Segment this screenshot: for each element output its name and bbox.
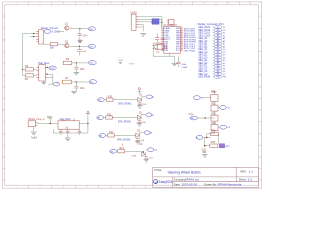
ground under U2 [42, 81, 47, 85]
svg-text:Hall_Sens: Hall_Sens [38, 62, 50, 65]
capacitor C15 [66, 129, 70, 135]
wire D3 to flag [138, 133, 144, 139]
ground row2 [137, 124, 142, 126]
svg-text:Amp_Mod: Amp_Mod [59, 118, 71, 121]
wire flag to ladder node [197, 117, 214, 119]
svg-text:SEG_E1: SEG_E1 [198, 60, 208, 62]
svg-text:19: 19 [181, 34, 183, 36]
svg-text:SEG_F2: SEG_F2 [198, 68, 208, 70]
svg-text:SEG_G2: SEG_G2 [198, 74, 208, 76]
svg-text:13: 13 [181, 47, 183, 49]
wire R24 to Q12 [218, 134, 220, 144]
svg-text:100n: 100n [80, 69, 86, 71]
wire power input left [23, 34, 37, 70]
svg-text:SEG_B1: SEG_B1 [198, 44, 208, 46]
junction D4 [143, 151, 144, 152]
svg-text:22: 22 [181, 27, 183, 29]
svg-text:R20: R20 [211, 92, 216, 94]
wire flag to R24 [203, 136, 211, 138]
svg-text:D: D [259, 86, 261, 89]
svg-text:B2: B2 [217, 46, 219, 48]
wire J3 to U3 [34, 124, 58, 132]
wire D4 riser [140, 150, 146, 153]
capacitor C6 [177, 56, 181, 67]
svg-text:D2: D2 [217, 30, 219, 32]
connector J2 [131, 14, 138, 30]
svg-text:2023-05-26: 2023-05-26 [182, 183, 198, 187]
svg-text:1.1: 1.1 [249, 170, 254, 174]
junction at J1 input [33, 33, 34, 34]
junction Q1 output [79, 28, 80, 29]
diode D2 [137, 115, 141, 119]
wire MCU bottom to ground [170, 53, 175, 63]
svg-text:VBAT: VBAT [118, 59, 124, 62]
VCC power flag right [86, 111, 90, 117]
svg-text:OUT: OUT [50, 68, 55, 70]
wire row3 [106, 134, 136, 136]
svg-text:17: 17 [181, 38, 183, 40]
svg-text:R13: R13 [120, 148, 125, 150]
resistor R25 [210, 144, 218, 147]
net flag SW_A [88, 27, 95, 31]
junction ladder mid [204, 117, 206, 119]
transistor Q11 [211, 125, 218, 131]
no-connect ground mark [119, 62, 122, 63]
wire U3 out to VCC riser [53, 118, 88, 133]
filter FB1 (blue module) [151, 19, 161, 24]
button row 1: net flag BTN1 [98, 98, 105, 102]
net flag COL2 [146, 113, 155, 117]
svg-text:12: 12 [181, 49, 183, 51]
button row 3: resistor R12 [108, 134, 115, 137]
ground ladder [202, 155, 208, 158]
capacitor C14 [59, 129, 63, 135]
button row 4: net flag BTN4 [110, 149, 117, 153]
border zone number labels [3, 2, 262, 188]
svg-text:1/1: 1/1 [248, 178, 253, 182]
net flag ROW2 [89, 61, 97, 65]
MCU U1 pin numbers [162, 27, 183, 51]
svg-text:R12: R12 [109, 132, 114, 134]
svg-text:A2: A2 [217, 40, 219, 43]
capacitor C11 [137, 121, 141, 124]
svg-text:G: G [259, 156, 261, 159]
wire U2 right pins [48, 67, 53, 84]
svg-text:SEG_CLK1: SEG_CLK1 [198, 33, 211, 35]
capacitor C3 [74, 63, 78, 73]
svg-text:STBY: STBY [129, 63, 135, 65]
svg-text:100n: 100n [80, 88, 86, 90]
reset jumper JP1 [167, 19, 174, 26]
MCU U1 internal right pin names [176, 27, 181, 52]
svg-text:20: 20 [181, 32, 183, 34]
transistor Q1 [65, 26, 69, 30]
capacitor C1 [78, 29, 82, 40]
svg-text:6: 6 [162, 38, 163, 40]
MCU right net labels [184, 27, 197, 52]
buzzer LS1 (purple) [219, 144, 224, 148]
ground row4 [144, 160, 149, 162]
svg-text:K1: K1 [217, 32, 219, 34]
net flag OUT_H [49, 66, 56, 70]
svg-text:Power_Current: Power_Current [41, 27, 58, 30]
net flag AUX [53, 82, 59, 86]
svg-text:SEG_B2: SEG_B2 [198, 46, 208, 48]
ground under U3 [65, 138, 71, 141]
MCU U1 left pins [161, 28, 163, 50]
svg-text:K2: K2 [217, 35, 219, 37]
svg-text:1: 1 [162, 27, 163, 29]
net flag ROW3 [89, 80, 97, 84]
wire J2 pin1 to MCU [139, 17, 162, 27]
diode D4 [142, 152, 146, 156]
diode D3 [136, 133, 140, 137]
ladder bottom pin mark [203, 151, 207, 153]
ground row1 [137, 106, 142, 108]
svg-text:H: H [259, 179, 261, 182]
wire Q1 collector to flag [69, 28, 88, 30]
svg-text:R10: R10 [108, 96, 113, 98]
wire ladder bottom left [205, 137, 210, 145]
junction ladder bottom [204, 145, 206, 147]
wire left rail to resistors [23, 69, 37, 75]
wire J2 pin2 to filter [139, 18, 152, 20]
svg-text:G: G [3, 156, 5, 159]
capacitor C10 [138, 103, 142, 106]
svg-text:D1: D1 [217, 54, 219, 56]
resistor R7 [62, 80, 71, 84]
junction U2 out1 [47, 67, 48, 68]
wire J2 pin3 to filter [139, 21, 152, 23]
button row 2: net flag BTN2 [97, 116, 104, 120]
resistor R3 [25, 68, 33, 71]
junction left rail [22, 69, 23, 70]
net flag IN_SIG [196, 136, 203, 140]
ground under C4 [71, 91, 77, 93]
connector J1 [36, 30, 43, 44]
opamp U3 [58, 119, 79, 130]
svg-text:SEG_A2: SEG_A2 [198, 40, 208, 43]
junction U2 out2 [47, 74, 48, 75]
resistor R24 [211, 132, 218, 135]
svg-text:PW: PW [223, 77, 226, 79]
wire Q11 down [207, 131, 215, 137]
svg-text:SP54A Ltd: SP54A Ltd [185, 177, 200, 181]
svg-text:REV:: REV: [241, 170, 247, 174]
svg-text:E1: E1 [217, 60, 219, 62]
junction U3 out [87, 123, 88, 124]
svg-text:E2: E2 [217, 63, 219, 65]
wire Q2 to flag [69, 45, 88, 47]
svg-text:5: 5 [162, 36, 163, 38]
button row 1: resistor R10 [106, 98, 113, 101]
EasyEDA logo icon [154, 180, 158, 184]
net flag OUT1 [218, 106, 231, 110]
resistor R1 [50, 43, 58, 46]
svg-text:SEG_C2: SEG_C2 [198, 52, 208, 54]
MCU U1 right pins [180, 28, 182, 50]
audio jack J3 [28, 121, 37, 127]
svg-text:H: H [3, 179, 5, 182]
capacitor C5 [155, 33, 159, 43]
wire caps to ground [67, 135, 69, 138]
small mark below labels [213, 91, 217, 92]
wire flag to Q10 [204, 97, 210, 99]
svg-text:SEG_A1: SEG_A1 [198, 37, 208, 40]
svg-text:16: 16 [181, 40, 183, 42]
ground under J2 [140, 34, 146, 37]
junction VCC [50, 123, 51, 124]
svg-text:BTN_ROW2: BTN_ROW2 [118, 122, 131, 124]
svg-text:4: 4 [162, 34, 163, 36]
wire R22 down [213, 121, 215, 124]
svg-text:Date:: Date: [174, 183, 181, 187]
wire R6 row [72, 62, 89, 64]
capacitor C4 [74, 82, 78, 91]
wire J2 pin4 down [139, 24, 144, 31]
svg-text:D1: D1 [217, 27, 219, 29]
svg-text:F2: F2 [217, 68, 219, 70]
capacitor C2 [77, 46, 81, 55]
button row 2: resistor R11 [106, 116, 113, 119]
MCU U1 internal pin names [164, 27, 170, 52]
svg-text:C2: C2 [217, 52, 219, 54]
svg-text:15: 15 [181, 43, 183, 45]
svg-text:SEG_DAT2: SEG_DAT2 [198, 29, 211, 32]
button row 4: resistor R13 [118, 150, 125, 153]
border zone tick marks bottom [28, 185, 145, 188]
wire R7 row [71, 81, 88, 83]
border zone tick marks left [2, 28, 4, 168]
svg-text:3: 3 [162, 32, 163, 34]
capacitor C13 [145, 157, 148, 158]
svg-text:Drawn By:: Drawn By: [204, 183, 217, 187]
svg-text:10: 10 [162, 47, 164, 49]
button row 3: net flag BTN3 [99, 134, 106, 138]
svg-text:C: C [3, 62, 5, 65]
svg-text:SEG_E2: SEG_E2 [198, 63, 208, 65]
svg-text:VCAP: VCAP [181, 66, 187, 69]
svg-text:C1: C1 [217, 49, 219, 51]
VCC power flag left [47, 116, 52, 124]
svg-text:LED_PWM: LED_PWM [198, 77, 209, 79]
svg-text:TITLE:: TITLE: [154, 168, 162, 172]
svg-text:SEG_G1: SEG_G1 [198, 71, 208, 73]
svg-text:G2: G2 [217, 74, 220, 76]
svg-text:G1: G1 [217, 71, 220, 73]
junction R24 input [206, 137, 208, 139]
wire D1 to flag [140, 97, 146, 103]
svg-text:2: 2 [162, 29, 163, 31]
transistor Q10 [211, 92, 218, 105]
capacitor C12 [136, 139, 140, 142]
resistor R22 [211, 115, 218, 121]
svg-text:LED_PWM: LED_PWM [184, 50, 195, 52]
svg-text:100n: 100n [181, 64, 187, 66]
svg-text:V_SNS: V_SNS [52, 31, 60, 34]
svg-text:14: 14 [181, 45, 183, 47]
svg-text:PW: PW [216, 76, 219, 78]
border zone tick marks right [259, 28, 262, 168]
svg-text:BTN_ROW1: BTN_ROW1 [118, 104, 131, 106]
junction lower [33, 36, 34, 37]
svg-text:X1 8MHz: X1 8MHz [154, 43, 163, 45]
wire row1 [104, 99, 138, 101]
wire D2 to flag [139, 115, 145, 121]
svg-text:Steering Wheel Button: Steering Wheel Button [168, 171, 201, 175]
crystal load capacitor CL2 [165, 46, 166, 49]
capacitor C16 [78, 129, 82, 135]
net flag LED_EN [193, 96, 204, 100]
junction row2 [76, 62, 77, 63]
sheet outer border frame [2, 2, 261, 188]
net flag SW_B [88, 44, 95, 48]
svg-text:4148: 4148 [131, 156, 137, 158]
svg-text:SEG_CLK2: SEG_CLK2 [198, 35, 211, 37]
svg-text:SEG_DAT1: SEG_DAT1 [198, 26, 211, 29]
ground under J3 [31, 132, 37, 138]
net flag COL1 [146, 95, 155, 99]
svg-text:C: C [259, 62, 261, 65]
crystal X1 [153, 43, 174, 57]
net flag OUT2 [218, 125, 231, 129]
net flag CUR_SNS [43, 30, 60, 34]
MCU U1 body [164, 27, 181, 54]
svg-text:7: 7 [162, 40, 163, 42]
net flag COL4 [147, 148, 158, 152]
net flag IN_PWM [190, 116, 197, 120]
R13 pin mark [122, 144, 124, 146]
svg-text:B1: B1 [217, 43, 219, 45]
svg-text:A1: A1 [217, 37, 219, 40]
crystal load capacitor CL1 [153, 46, 155, 49]
svg-text:EasyEDA: EasyEDA [159, 180, 174, 184]
net flag COL3 [144, 131, 153, 135]
ground under C1 [77, 40, 82, 42]
hall sensor U2 [37, 65, 48, 81]
svg-text:F1: F1 [217, 65, 219, 67]
svg-text:Sheet:: Sheet: [239, 178, 247, 182]
wire J1 to R1 to Q2 [43, 31, 64, 44]
title block outline [153, 167, 259, 187]
power flag above diode column [138, 88, 142, 94]
resistor R4 [25, 74, 33, 77]
svg-text:SEG_F1: SEG_F1 [198, 66, 208, 68]
svg-text:BTN_ROW3: BTN_ROW3 [118, 139, 131, 141]
wire row4 [125, 150, 141, 152]
resistor R21 [211, 105, 218, 111]
ground under C3 [74, 73, 80, 75]
wire filter to MCU [160, 19, 163, 28]
ground under MCU [172, 63, 178, 66]
svg-text:PWM: PWM [188, 114, 194, 116]
ground row3 [135, 142, 140, 144]
sheet inner border frame [5, 5, 259, 185]
svg-text:D2: D2 [217, 57, 219, 59]
resistor R6 [63, 61, 72, 64]
svg-text:EN: EN [201, 98, 204, 100]
junction row3 [76, 81, 77, 82]
wire row2 [104, 117, 138, 119]
svg-text:SP54A Barracuda: SP54A Barracuda [218, 183, 242, 187]
svg-text:SEG_C1: SEG_C1 [198, 49, 208, 51]
transistor Q2 [65, 44, 69, 48]
junction row Q2 [79, 46, 80, 47]
svg-text:SEG_D2: SEG_D2 [198, 57, 208, 59]
svg-text:D: D [3, 86, 5, 89]
diode D1 [138, 97, 142, 101]
display net flag rows [198, 25, 226, 78]
svg-text:SEG_D1: SEG_D1 [198, 55, 208, 57]
svg-text:18: 18 [181, 36, 183, 38]
svg-text:21: 21 [181, 29, 183, 31]
wire R21 down [213, 111, 215, 115]
border zone tick marks top [28, 2, 239, 5]
